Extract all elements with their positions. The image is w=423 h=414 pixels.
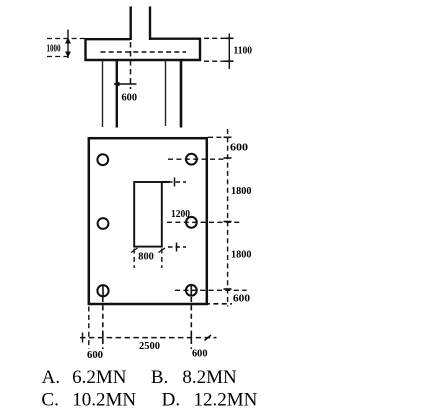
column centre dashed line [130,42,132,89]
tick at column top for 1200 [174,178,176,187]
extension from left pile column [102,297,104,349]
pile 2 right edge [180,61,183,128]
svg-text:1800: 1800 [231,250,252,261]
svg-text:600: 600 [87,350,103,361]
tick at mid pile row [224,221,232,223]
svg-text:10.2MN: 10.2MN [72,389,136,410]
bottom dimension line [80,337,217,339]
column right edge [149,7,151,41]
svg-text:1100: 1100 [234,46,253,57]
svg-text:12.2MN: 12.2MN [194,389,258,410]
pile circle bottom-right [186,285,197,296]
pile 2 left edge [165,61,167,126]
svg-text:B.: B. [151,367,168,388]
pile circle top-left [97,154,108,165]
svg-text:1200: 1200 [171,209,190,220]
svg-text:8.2MN: 8.2MN [182,367,237,388]
pile cap outline (elevation) [85,38,202,61]
pile circle bottom-left [97,285,108,296]
dimension 600 (pile offset, below cap) [114,83,137,85]
svg-text:C.: C. [41,389,58,410]
svg-text:600: 600 [230,142,248,153]
svg-text:600: 600 [233,293,250,304]
svg-text:1800: 1800 [231,186,252,197]
pile 1 left edge [102,61,104,127]
dimension 800 (column width) [133,249,135,269]
leader from cap top edge [208,136,232,138]
pile cap outline (plan) [89,138,207,304]
svg-text:D.: D. [162,389,180,410]
svg-text:800: 800 [138,252,154,263]
column outline (plan, inner rectangle) [134,182,162,247]
column top edge extension [162,181,170,183]
leader from cap bottom edge [205,303,232,305]
extension from right pile column [190,297,192,349]
pile circle mid-right [186,217,197,228]
right dimension chain [227,129,229,307]
dimension 1100 (right of cap) [204,34,234,70]
svg-text:1000: 1000 [47,44,61,55]
dimension 1000 (left, cap height) [47,30,85,59]
svg-text:600: 600 [122,93,138,104]
tick at top pile row [224,157,232,159]
pile circle top-right [186,154,197,165]
ticks on bottom dimension line [82,333,84,343]
svg-text:A.: A. [42,367,60,388]
tick at column bottom for 1200 [176,243,178,252]
extension from cap left edge [88,307,90,350]
pile circle mid-left [98,218,109,229]
tick at bottom pile row [224,288,232,290]
svg-text:600: 600 [192,349,208,360]
svg-text:6.2MN: 6.2MN [72,367,127,388]
column left edge [129,7,131,41]
pile 1 right edge [116,61,118,128]
embedment dashed line inside cap [101,51,187,53]
svg-text:2500: 2500 [139,341,160,352]
